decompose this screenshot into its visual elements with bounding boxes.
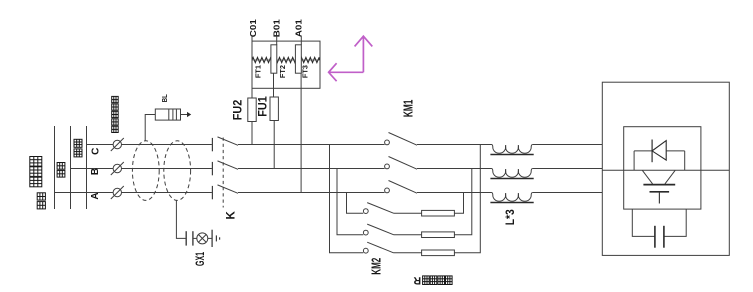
label B01 [272, 19, 281, 38]
wire: resistor R1 back up to phase line [454, 193, 463, 214]
switch K pole C: fixed contact bar [211, 138, 213, 151]
wire: KM2 pole 2 to resistor R2 [394, 234, 422, 236]
current transformer CT2 (dashed ellipse) [164, 141, 191, 201]
terminal A (slashed circle) [111, 186, 124, 199]
contactor KM2 pole 2: blade [367, 224, 393, 235]
wire B01 drop [276, 36, 278, 45]
wire: phase C reactor to converter [533, 144, 603, 146]
wire: phase C switch K to contactor KM1 [238, 144, 385, 146]
wire: tap from phase line down to KM2 pole 2 [337, 169, 363, 235]
contactor KM1 pole A: contact circle [385, 188, 390, 193]
wire: phase B terminal to switch K [122, 168, 212, 170]
svg-text:C01: C01 [249, 19, 258, 38]
label 黄色 (yellow) [37, 193, 45, 209]
DC-link capacitor C1 plates [655, 226, 664, 248]
label 红色 (red) [74, 139, 82, 157]
diode D1 branch risers [634, 151, 685, 170]
capacitor plates in GX1 branch [186, 231, 193, 245]
element FT3 body (narrow rect) [295, 45, 301, 73]
contactor KM1 pole A: blade [389, 181, 418, 194]
contactor KM2 pole 1: contact circle [363, 209, 368, 214]
contactor KM1 pole C: blade [389, 133, 418, 146]
fuse FU1 [270, 97, 278, 121]
switch K pole A: fixed contact bar [211, 186, 213, 199]
wire A01 drop [300, 36, 302, 45]
label A01 [295, 19, 304, 38]
surge absorber zigzag element row [252, 57, 319, 62]
label A [90, 192, 101, 199]
wire: phase A switch K to contactor KM1 [238, 192, 385, 194]
label K [225, 210, 237, 219]
svg-text:B: B [90, 168, 101, 175]
wire: phase B switch K to contactor KM1 [238, 168, 385, 170]
label FT1 [255, 65, 262, 78]
wire: phase C from bus to terminal [87, 144, 114, 146]
svg-text:GX1: GX1 [193, 252, 207, 266]
wire: phase A KM1 to reactor [417, 192, 492, 194]
svg-text:BL: BL [160, 94, 169, 102]
wire fuse FU2 to phase C [251, 122, 253, 145]
resistor R3 [422, 250, 455, 256]
wire: supply bus 2 (vertical) [70, 126, 72, 209]
svg-text:FT3: FT3 [303, 65, 310, 78]
wire: phase A terminal to switch K [122, 192, 212, 194]
svg-text:B01: B01 [272, 19, 281, 38]
svg-text:R: R [413, 274, 421, 286]
switch K pole C: blade [218, 137, 239, 145]
label KM2 [369, 258, 383, 275]
svg-text:A: A [90, 192, 101, 199]
wire: supply bus 1 (vertical) [54, 126, 56, 209]
contactor KM2 pole 1: blade [367, 203, 393, 214]
svg-text:KM1: KM1 [401, 100, 415, 118]
surge absorber module box [252, 41, 320, 88]
wire: phase B reactor to converter [533, 168, 603, 170]
wire: CT2 to lamp branch [176, 200, 186, 238]
switch K linkage (dashed) [222, 138, 224, 208]
element FT2 body (narrow rect) [271, 45, 277, 73]
wire: tap from phase line down to KM2 pole 1 [347, 193, 364, 214]
label FT3 [303, 65, 310, 78]
contactor KM1 pole B: contact circle [385, 164, 390, 169]
svg-text:K: K [225, 210, 237, 219]
switch K pole B: fixed contact bar [211, 162, 213, 175]
label 输入侧端子 (input-side terminals) [112, 96, 119, 132]
contactor KM2 pole 3: blade [367, 242, 393, 253]
wire: supply bus 3 (vertical) [86, 126, 88, 209]
label FU2 [230, 99, 244, 120]
terminal B (slashed circle) [111, 162, 124, 175]
contactor KM1 pole C: contact circle [385, 140, 390, 145]
wire: phase A reactor to converter [533, 192, 603, 194]
wire: KM2 pole 1 to resistor R1 [394, 212, 422, 214]
wire FT2 to fuse FU1 [273, 73, 275, 97]
wire: phase B KM1 to reactor [417, 168, 492, 170]
pointer arrow (magenta) [329, 36, 373, 81]
label FT2 [280, 65, 287, 78]
contactor KM1 pole B: blade [389, 157, 418, 170]
label FU1 [256, 96, 270, 117]
svg-text:KM2: KM2 [369, 258, 383, 275]
svg-text:FU2: FU2 [230, 99, 244, 120]
transistor IGBT Q1 [642, 170, 675, 203]
current transformer CT1 (dashed ellipse) [132, 141, 159, 201]
contactor KM2 pole 2: contact circle [363, 230, 368, 235]
label C01 [249, 19, 258, 38]
fuse FU2 [248, 98, 256, 122]
ground (chassis) [212, 230, 220, 247]
sensor BL (box with segments and arrow) [155, 109, 191, 120]
DC-link capacitor C1 leads [632, 209, 686, 236]
wire: phase C KM1 to reactor [417, 144, 492, 146]
wire: phase A from bus to terminal [55, 192, 114, 194]
diode D1 [634, 140, 685, 163]
label 限流电阻R (current-limit resistor R), rotated 180 [413, 274, 452, 286]
svg-text:A01: A01 [295, 19, 304, 38]
wire C01 drop [251, 36, 253, 99]
wire: KM2 pole 3 to resistor R3 [394, 252, 422, 254]
wire: DC bus through converter [602, 169, 729, 171]
label 绿色 (green) [57, 163, 65, 178]
label 主回路 (main circuit) [30, 157, 42, 187]
resistor R2 [422, 232, 455, 238]
label L*3 [503, 209, 517, 225]
wire: resistor R2 back up to phase line [454, 169, 471, 235]
contactor KM2 pole 3: contact circle [363, 248, 368, 253]
wire: resistor R3 back up to phase line [454, 145, 480, 253]
svg-text:FT1: FT1 [255, 65, 262, 78]
wire: phase C terminal to switch K [122, 144, 212, 146]
reactor L phase A [490, 193, 533, 203]
wire FT3 to phase A [300, 73, 302, 192]
switch K pole B: blade [218, 161, 239, 169]
label GX1 [193, 252, 207, 266]
label C [91, 148, 102, 155]
reactor L phase B [490, 169, 533, 179]
label B [90, 168, 101, 175]
IGBT module inner box [624, 127, 701, 209]
switch K pole A: blade [218, 185, 239, 193]
wire fuse FU1 to phase B [273, 121, 275, 169]
reactor L phase C [490, 145, 533, 155]
svg-text:FT2: FT2 [280, 65, 287, 78]
wire: tap from phase line down to KM2 pole 3 [330, 145, 364, 253]
label KM1 [401, 100, 415, 118]
label BL [160, 94, 169, 102]
resistor R1 [422, 210, 455, 216]
wire: CT1 to sensor BL [145, 115, 155, 141]
svg-text:C: C [91, 148, 102, 155]
wire: phase B from bus to terminal [71, 168, 114, 170]
converter unit enclosure [602, 82, 729, 255]
svg-text:FU1: FU1 [256, 96, 270, 117]
terminal C (slashed circle) [111, 138, 124, 151]
indicator lamp GX1 [193, 233, 212, 244]
svg-text:L*3: L*3 [503, 209, 517, 225]
